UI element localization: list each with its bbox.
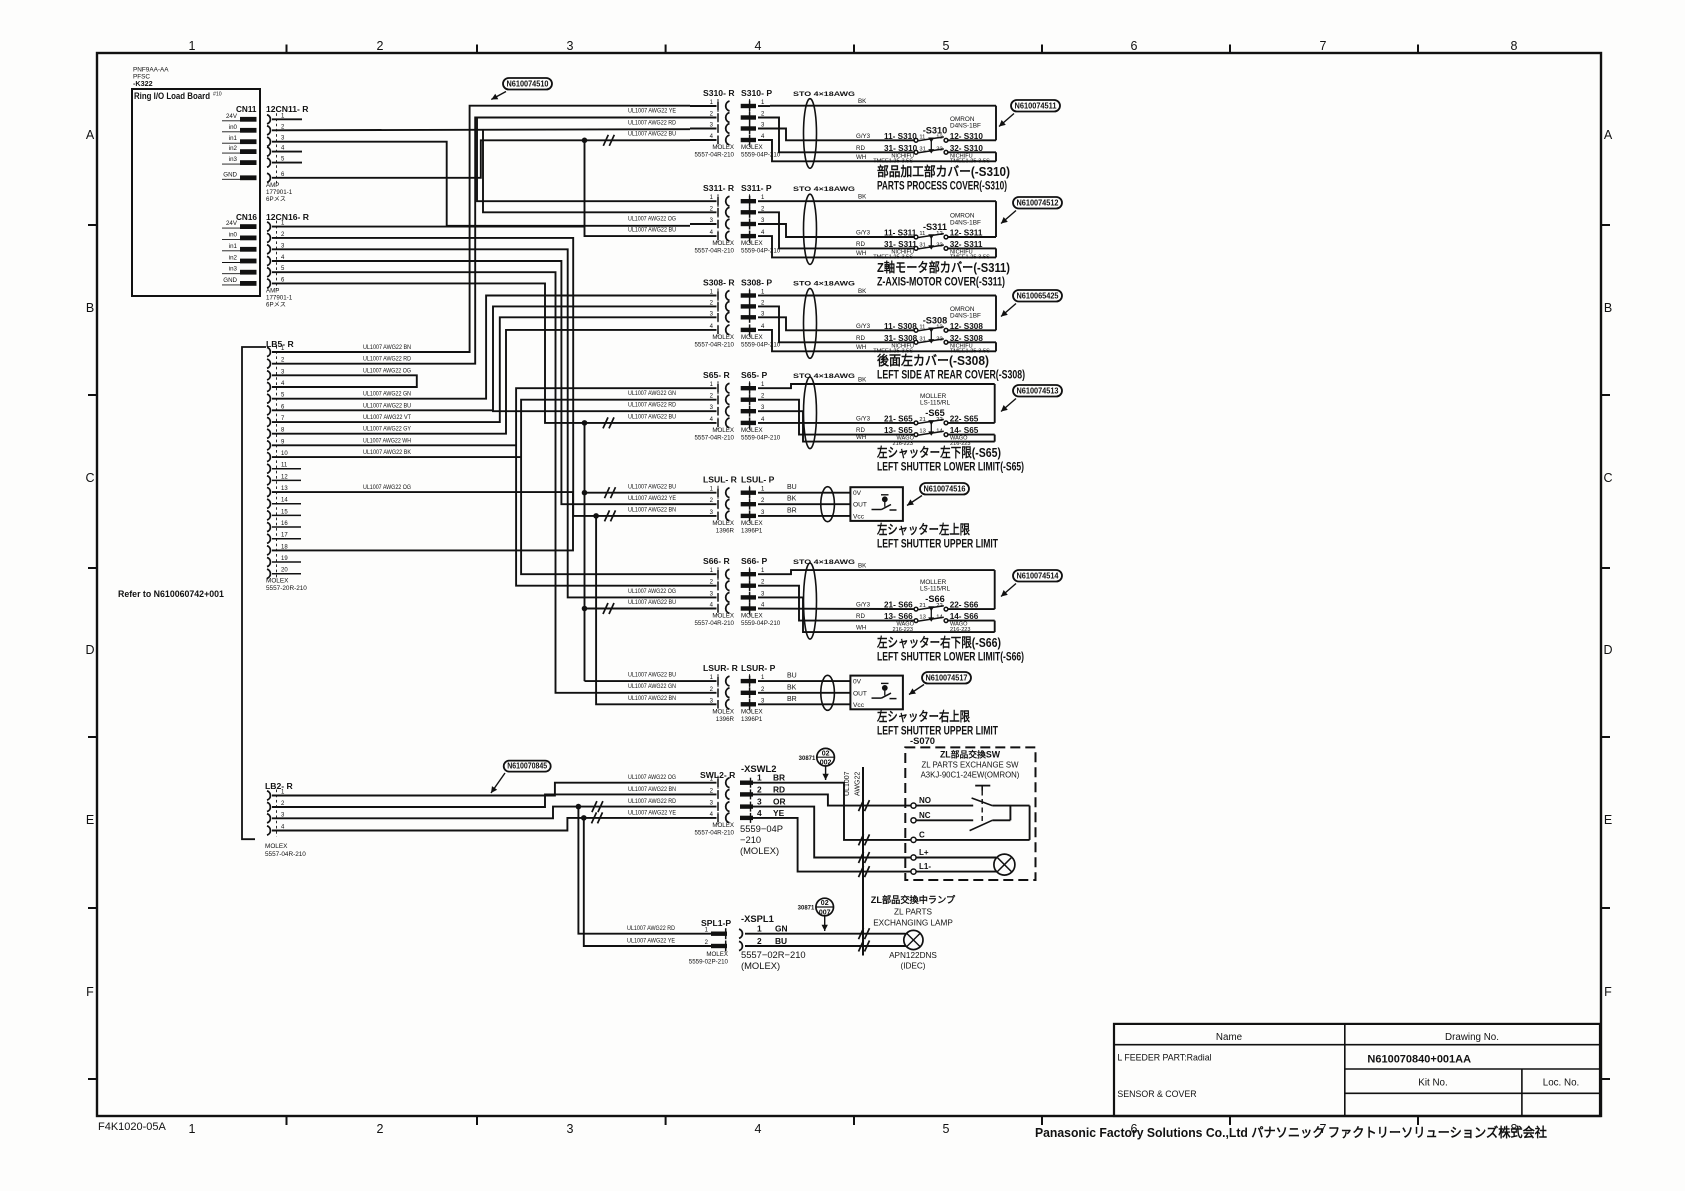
svg-text:30871: 30871	[799, 756, 816, 762]
svg-text:1396P1: 1396P1	[741, 716, 763, 723]
connector part label 5557-04R-210 for S308- R	[694, 334, 734, 349]
junction dot LSUL.3 branch	[593, 513, 599, 519]
wire destination marker 02/007	[798, 898, 834, 931]
svg-text:N610070840+001AA: N610070840+001AA	[1367, 1054, 1471, 1066]
switch pin labels S66	[884, 601, 979, 622]
wire LB5.8 to S308-R.4	[272, 330, 690, 434]
svg-text:14: 14	[281, 498, 288, 504]
svg-text:UL1007 AWG22 OG: UL1007 AWG22 OG	[628, 774, 676, 781]
wire GND branch down to S311-R.4	[585, 140, 691, 236]
svg-text:5557−02R−210: 5557−02R−210	[741, 949, 806, 960]
svg-text:LSUR- R: LSUR- R	[703, 663, 739, 673]
wire destination marker 02/002	[799, 748, 835, 780]
svg-text:S308- R: S308- R	[703, 278, 735, 288]
terminal labels S65	[892, 436, 970, 447]
svg-text:LSUR- P: LSUR- P	[741, 663, 776, 673]
svg-text:0V: 0V	[853, 679, 862, 686]
grid column ticks bottom	[287, 1115, 1419, 1125]
svg-text:1396R: 1396R	[716, 716, 735, 723]
wire CN16.4 down to LSUL-R.2	[272, 261, 690, 504]
svg-text:02: 02	[822, 750, 830, 757]
wire XSWL2.4 YE to L1- terminal	[753, 818, 911, 872]
svg-text:1396P1: 1396P1	[741, 527, 763, 534]
svg-text:D: D	[85, 643, 94, 657]
svg-text:N610074511: N610074511	[1015, 102, 1057, 111]
title block headers	[1216, 1032, 1499, 1043]
wire LB2.2 to SWL2-R.2	[272, 786, 717, 807]
svg-text:UL1007 AWG22 OG: UL1007 AWG22 OG	[628, 216, 676, 223]
svg-text:32: 32	[936, 336, 942, 342]
svg-text:A: A	[86, 128, 95, 142]
svg-text:S311- R: S311- R	[703, 183, 735, 193]
svg-text:RD: RD	[856, 145, 865, 152]
svg-text:UL1007 AWG22 BU: UL1007 AWG22 BU	[363, 402, 411, 409]
switch maker label S308	[950, 306, 981, 320]
svg-text:D4NS-1BF: D4NS-1BF	[950, 123, 981, 130]
connector part label 5559-04P-210 MOLEX for XSWL2	[740, 823, 783, 856]
twisted pair mark on LSUL.3 wire	[605, 510, 616, 521]
connector S310- R	[690, 88, 735, 147]
svg-text:13: 13	[919, 429, 925, 435]
connector part label AMP 177901-1 for 12CN16- R	[266, 287, 293, 308]
svg-text:-K322: -K322	[133, 79, 153, 88]
connector part label MOLEX 5557-04R-210 for LB2-R	[265, 843, 306, 858]
svg-text:UL1007 AWG22 GN: UL1007 AWG22 GN	[628, 390, 676, 397]
svg-text:STO 4×18AWG: STO 4×18AWG	[793, 559, 855, 566]
wire LB2.4 to SWL2-R.4	[272, 809, 717, 830]
svg-text:S311- P: S311- P	[741, 183, 772, 193]
svg-text:UL1007 AWG22 GN: UL1007 AWG22 GN	[363, 391, 411, 398]
svg-text:5559-04P-210: 5559-04P-210	[741, 248, 781, 255]
svg-text:N610074516: N610074516	[924, 485, 966, 494]
callout N610070845	[491, 761, 551, 793]
svg-text:-S308: -S308	[923, 315, 948, 325]
svg-text:UL1007 AWG22 BU: UL1007 AWG22 BU	[628, 672, 676, 679]
terminal labels S308	[873, 343, 990, 354]
svg-text:MOLEX: MOLEX	[712, 613, 734, 620]
svg-text:21- S65: 21- S65	[884, 414, 913, 423]
svg-text:2: 2	[757, 936, 762, 946]
svg-text:S310- P: S310- P	[741, 88, 772, 98]
svg-text:RD: RD	[856, 427, 865, 434]
svg-text:N610074512: N610074512	[1017, 199, 1059, 208]
wire CN16.3 down to S66-R.3	[272, 249, 690, 597]
svg-text:5: 5	[943, 1122, 950, 1136]
function title S310	[877, 164, 1010, 193]
svg-text:左シャッター左上限: 左シャッター左上限	[877, 522, 971, 537]
svg-text:5557-04R-210: 5557-04R-210	[694, 248, 734, 255]
svg-text:F4K1020-05A: F4K1020-05A	[98, 1121, 167, 1133]
svg-text:5557-04R-210: 5557-04R-210	[694, 620, 734, 627]
wire CN11.3 to S311-R.3	[272, 142, 690, 226]
cable sheath oval for S65	[804, 377, 817, 449]
svg-text:177901-1: 177901-1	[266, 294, 293, 301]
svg-text:UL1007 AWG22 YE: UL1007 AWG22 YE	[628, 108, 676, 115]
svg-text:AMP: AMP	[266, 287, 279, 294]
connector S65- P	[741, 370, 768, 430]
svg-text:12- S310: 12- S310	[950, 132, 984, 141]
svg-text:RD: RD	[856, 335, 865, 342]
svg-text:ZL PARTS: ZL PARTS	[894, 908, 933, 917]
svg-text:EXCHANGING LAMP: EXCHANGING LAMP	[873, 919, 953, 928]
connector part label 5557-04R-210 for S311- R	[694, 240, 734, 255]
Ring I/O Load Board block K322	[132, 89, 260, 296]
svg-text:LEFT SIDE AT REAR COVER(-S308): LEFT SIDE AT REAR COVER(-S308)	[877, 368, 1025, 382]
wire CN11.5 stub	[272, 162, 302, 164]
svg-text:1: 1	[189, 1122, 196, 1136]
terminal labels S310	[873, 153, 990, 164]
callout N610074516	[907, 483, 969, 506]
svg-text:LSUL- P: LSUL- P	[741, 475, 775, 485]
switch designator -S311	[923, 222, 947, 232]
svg-text:UL1007 AWG22 VT: UL1007 AWG22 VT	[363, 414, 411, 421]
svg-text:32: 32	[936, 146, 942, 152]
svg-text:in3: in3	[229, 156, 238, 163]
svg-text:in2: in2	[229, 255, 238, 262]
switch pin labels S310	[884, 132, 983, 153]
wire cable to switch S311	[948, 201, 996, 257]
svg-text:8: 8	[1511, 39, 1518, 53]
wires LSUR-P to sensor box	[758, 681, 850, 704]
svg-text:GND: GND	[223, 277, 237, 284]
cable label STO 4x18AWG for S311	[793, 186, 855, 193]
svg-text:in2: in2	[229, 145, 238, 152]
grid row ticks right	[1600, 225, 1610, 1079]
svg-text:-S311: -S311	[923, 222, 947, 232]
svg-text:5559−04P: 5559−04P	[740, 823, 783, 834]
svg-text:LEFT SHUTTER LOWER LIMIT(-S66): LEFT SHUTTER LOWER LIMIT(-S66)	[877, 650, 1024, 664]
wire CN16.1 to junction	[272, 226, 585, 228]
cable label STO 4x18AWG for S308	[793, 281, 855, 288]
svg-text:(IDEC): (IDEC)	[900, 962, 925, 971]
lamp APN122DNS	[889, 930, 937, 970]
svg-text:0V: 0V	[853, 490, 862, 497]
wire CN16.6 down to S65-R.4 BU net	[272, 283, 690, 423]
grid column ticks top	[287, 45, 1419, 55]
svg-text:12: 12	[281, 474, 288, 480]
svg-text:SENSOR & COVER: SENSOR & COVER	[1117, 1089, 1196, 1099]
cable conductor labels for S65	[856, 377, 871, 442]
svg-text:32- S310: 32- S310	[950, 144, 984, 153]
svg-text:MOLEX: MOLEX	[712, 427, 734, 434]
cable sheath oval for S308	[804, 289, 817, 359]
wire riser to S311-R.2	[483, 129, 690, 212]
svg-text:N610074517: N610074517	[926, 674, 968, 683]
svg-text:BK: BK	[858, 194, 867, 201]
svg-text:32- S311: 32- S311	[950, 240, 983, 249]
S070 titles	[921, 749, 1020, 780]
svg-text:−210: −210	[740, 834, 761, 845]
switch pin labels S65	[884, 414, 979, 435]
svg-text:6: 6	[1131, 39, 1138, 53]
wire XSWL2.1 BR to C terminal	[753, 783, 911, 840]
svg-text:177901-1: 177901-1	[266, 189, 293, 196]
svg-text:UL1007 AWG22 BU: UL1007 AWG22 BU	[628, 483, 676, 490]
svg-text:PARTS PROCESS COVER(-S310): PARTS PROCESS COVER(-S310)	[877, 179, 1007, 193]
svg-text:NC: NC	[919, 811, 931, 820]
terminal L+	[911, 848, 929, 860]
connector -XSWL2	[740, 763, 786, 823]
connector LSUR- R	[690, 663, 739, 711]
wire LB5.7 to S308-R.3	[272, 317, 690, 422]
svg-text:F: F	[1604, 985, 1612, 999]
svg-text:OUT: OUT	[853, 690, 867, 697]
connector CN16 on load board	[222, 213, 257, 286]
svg-text:MOLEX: MOLEX	[741, 427, 763, 434]
svg-text:22- S65: 22- S65	[950, 414, 979, 423]
svg-text:Vcc: Vcc	[853, 513, 865, 520]
svg-text:S66- R: S66- R	[703, 556, 731, 566]
wires S65-P to cable	[758, 384, 995, 442]
wire cable to switch S310	[948, 106, 996, 162]
sheet number F4K1020-05A	[98, 1121, 167, 1133]
callout N610074510	[491, 78, 552, 100]
svg-text:MOLEX: MOLEX	[741, 240, 763, 247]
cable sheath oval for S66	[804, 563, 817, 639]
svg-text:D4NS-1BF: D4NS-1BF	[950, 313, 981, 320]
svg-text:(MOLEX): (MOLEX)	[741, 960, 780, 971]
svg-text:7: 7	[1320, 39, 1327, 53]
svg-text:G/Y3: G/Y3	[856, 602, 871, 609]
photo sensor box LSUL	[850, 487, 903, 521]
svg-text:5559-04P-210: 5559-04P-210	[741, 434, 781, 441]
svg-text:UL1007 AWG22 BU: UL1007 AWG22 BU	[628, 413, 676, 420]
svg-text:5559-02P-210: 5559-02P-210	[689, 959, 729, 966]
svg-text:MOLEX: MOLEX	[741, 708, 763, 715]
svg-text:BK: BK	[858, 288, 867, 295]
svg-text:UL1007 AWG22 BN: UL1007 AWG22 BN	[628, 695, 676, 702]
svg-text:F: F	[86, 985, 94, 999]
svg-text:20: 20	[281, 568, 288, 574]
terminal labels S311	[873, 249, 990, 260]
svg-text:BR: BR	[787, 507, 797, 514]
svg-text:12- S311: 12- S311	[950, 229, 983, 238]
svg-text:UL1007 AWG22 RD: UL1007 AWG22 RD	[363, 356, 411, 363]
svg-text:B: B	[86, 301, 94, 315]
svg-text:11- S310: 11- S310	[884, 132, 917, 141]
svg-text:S310- R: S310- R	[703, 88, 735, 98]
svg-text:21- S66: 21- S66	[884, 601, 913, 610]
connector 12CN11- R	[266, 104, 309, 184]
switch pin labels S311	[884, 229, 983, 249]
connector LB2-R	[265, 781, 293, 837]
svg-text:Z軸モータ部カバー(-S311): Z軸モータ部カバー(-S311)	[877, 260, 1010, 275]
wire LB5.1 to S310-R.1	[272, 106, 690, 352]
wires LSUL-P to sensor box	[758, 493, 850, 516]
wire LB2.1 to SWL2-R.1	[272, 774, 717, 796]
cable sheath oval for S311	[804, 194, 817, 264]
svg-text:BK: BK	[787, 496, 797, 503]
svg-text:-S310: -S310	[923, 125, 948, 135]
grid row labels right	[1603, 128, 1612, 999]
svg-text:5557-04R-210: 5557-04R-210	[694, 434, 734, 441]
junction dot SPL1 branch YE	[581, 815, 587, 821]
svg-text:14- S66: 14- S66	[950, 612, 979, 621]
connector LSUL- P	[741, 475, 775, 523]
svg-text:ZL部品交換SW: ZL部品交換SW	[940, 749, 1001, 760]
svg-text:RD: RD	[856, 241, 865, 248]
svg-text:E: E	[1604, 813, 1612, 827]
svg-text:L+: L+	[919, 848, 929, 857]
callout N610074511	[999, 100, 1060, 127]
wire S65-R.3 feed	[493, 390, 690, 411]
svg-text:5557-04R-210: 5557-04R-210	[694, 829, 734, 836]
wire XSWL2.3 OR to L+ terminal	[753, 807, 911, 858]
switch maker label S311	[950, 213, 981, 227]
svg-text:LSUL- R: LSUL- R	[703, 475, 738, 485]
svg-text:MOLEX: MOLEX	[712, 822, 734, 829]
connector S310- P	[741, 88, 773, 147]
svg-text:14: 14	[936, 429, 943, 435]
svg-text:-S66: -S66	[925, 594, 944, 604]
svg-text:CN16: CN16	[236, 213, 257, 222]
wire branch down to LSUR-R.3	[596, 516, 690, 704]
svg-text:#10: #10	[213, 92, 222, 98]
svg-text:G/Y3: G/Y3	[856, 415, 871, 422]
svg-text:24V: 24V	[226, 220, 238, 227]
svg-text:Kit No.: Kit No.	[1418, 1078, 1447, 1089]
wire cable to switch S65	[948, 384, 994, 442]
svg-text:5557-04R-210: 5557-04R-210	[265, 851, 306, 858]
wires S308-P to cable	[758, 296, 996, 352]
svg-text:007: 007	[819, 909, 831, 916]
svg-text:2: 2	[757, 784, 762, 794]
svg-text:3: 3	[567, 39, 574, 53]
terminal NC	[911, 811, 931, 823]
svg-text:5559-04P-210: 5559-04P-210	[741, 341, 781, 348]
limit switch -S308	[914, 327, 948, 344]
svg-text:SPL1-P: SPL1-P	[701, 918, 731, 928]
svg-text:31: 31	[919, 336, 925, 342]
svg-text:31: 31	[919, 242, 925, 248]
svg-text:OUT: OUT	[853, 502, 867, 509]
svg-text:11- S308: 11- S308	[884, 322, 917, 331]
svg-text:-S070: -S070	[910, 735, 935, 746]
connector SPL1-P	[701, 918, 731, 952]
left bus bracket for LB5 and LB2	[242, 347, 266, 839]
title block name SENSOR & COVER	[1117, 1089, 1196, 1099]
svg-text:17: 17	[281, 533, 288, 539]
cable label STO 4x18AWG for S310	[793, 91, 855, 98]
svg-text:12CN16- R: 12CN16- R	[266, 212, 310, 222]
svg-text:WH: WH	[856, 434, 866, 441]
connector part label 5557-02R-210 MOLEX for XSPL1	[741, 949, 806, 971]
cable conductor labels for S308	[856, 288, 871, 351]
svg-text:UL1007 AWG22 BN: UL1007 AWG22 BN	[628, 786, 676, 793]
function title S311	[877, 260, 1010, 289]
connector part label 5559-04P-210 for S65- P	[741, 427, 781, 442]
wire BU branch to LSUL-R.1	[585, 483, 691, 492]
connector part label 5559-04P-210 for S66- P	[741, 613, 781, 628]
wire stubs LB5-R pins 11 12 14 15 16 17 19 20	[272, 469, 301, 574]
svg-text:6Pメス: 6Pメス	[266, 196, 286, 203]
svg-text:BR: BR	[787, 696, 797, 703]
wire SPL1 feed YE	[584, 818, 711, 946]
grid row ticks left	[88, 225, 98, 1079]
svg-text:02: 02	[821, 900, 829, 907]
svg-text:1396R: 1396R	[716, 527, 735, 534]
switch maker label S65	[920, 393, 951, 407]
drawing border frame	[97, 53, 1601, 1116]
S070 switch mechanism	[916, 786, 1030, 840]
svg-text:-S65: -S65	[925, 408, 944, 418]
svg-text:ZL PARTS EXCHANGE SW: ZL PARTS EXCHANGE SW	[922, 761, 1020, 770]
svg-text:UL1007 AWG22 YE: UL1007 AWG22 YE	[628, 809, 676, 816]
junction dot GND at S310 wire	[582, 138, 588, 144]
svg-text:MOLEX: MOLEX	[712, 520, 734, 527]
svg-text:19: 19	[281, 556, 288, 562]
svg-text:N610074510: N610074510	[507, 80, 549, 89]
twisted pair mark SWL2.4	[592, 812, 603, 823]
svg-text:CN11: CN11	[236, 105, 257, 114]
svg-text:1: 1	[189, 39, 196, 53]
svg-text:22- S66: 22- S66	[950, 601, 979, 610]
svg-text:MOLEX: MOLEX	[741, 520, 763, 527]
svg-text:UL1007 AWG22 RD: UL1007 AWG22 RD	[628, 402, 676, 409]
connector SWL2-R	[700, 770, 736, 825]
svg-text:C: C	[919, 831, 925, 840]
svg-text:MOLEX: MOLEX	[706, 951, 728, 958]
svg-text:5557-04R-210: 5557-04R-210	[694, 152, 734, 159]
svg-text:31: 31	[919, 146, 925, 152]
svg-text:1: 1	[757, 773, 762, 783]
svg-text:5559-04P-210: 5559-04P-210	[741, 620, 781, 627]
cable sheath oval for LSUR	[821, 675, 835, 710]
svg-text:UL1007 AWG22 OG: UL1007 AWG22 OG	[363, 484, 411, 491]
svg-text:ZL部品交換中ランプ: ZL部品交換中ランプ	[871, 894, 956, 905]
wire LB2.3 to SWL2-R.3	[272, 798, 717, 818]
svg-text:N610065425: N610065425	[1017, 292, 1059, 301]
wires S311-P to cable	[758, 201, 996, 257]
wire cable to switch S66	[948, 570, 994, 632]
wires S66-P to cable	[758, 570, 995, 632]
connector S65- R	[690, 370, 731, 430]
function title S308	[877, 353, 1025, 382]
svg-text:B: B	[1604, 301, 1612, 315]
svg-text:S308- P: S308- P	[741, 278, 772, 288]
svg-text:UL1007 AWG22 GY: UL1007 AWG22 GY	[363, 426, 412, 433]
svg-text:5559-04P-210: 5559-04P-210	[741, 152, 781, 159]
wire CN16.5 down to LSUR-R.2	[272, 272, 690, 693]
twisted pair mark SWL2.3	[592, 801, 603, 812]
svg-text:3: 3	[567, 1122, 574, 1136]
svg-text:15: 15	[281, 509, 288, 515]
junction dot BU net at S66.4	[582, 606, 588, 612]
cable conductor labels for LSUL	[787, 484, 797, 514]
switch maker label S310	[950, 116, 981, 130]
board reference PNF9AA-AA PFSC -K322	[133, 67, 169, 89]
svg-text:AWG22: AWG22	[855, 772, 862, 796]
connector CN11 on load board	[222, 105, 257, 180]
svg-text:LB2- R: LB2- R	[265, 781, 293, 791]
jumper loop LB5 pin13 to pin18	[272, 484, 573, 550]
svg-text:in0: in0	[229, 231, 238, 238]
connector LSUL- R	[690, 475, 738, 523]
connector part label 5557-04R-210 for S65- R	[694, 427, 734, 442]
grid column labels bottom	[189, 1122, 1518, 1136]
switch pin labels S308	[884, 322, 983, 343]
svg-text:STO 4×18AWG: STO 4×18AWG	[793, 186, 855, 193]
connector part label MOLEX 5557-04R-210 for SWL2-R	[694, 822, 734, 837]
wire LB5.2 to S310-R.2	[272, 108, 690, 364]
limit switch -S65	[914, 420, 948, 437]
connector part label 5557-04R-210 for S66- R	[694, 613, 734, 628]
connector S308- R	[690, 278, 735, 337]
svg-text:UL1007 AWG22 RD: UL1007 AWG22 RD	[628, 120, 676, 127]
twisted pair mark LSUL.1	[605, 487, 616, 498]
callout N610074512	[1001, 197, 1062, 224]
svg-text:13: 13	[919, 615, 925, 621]
